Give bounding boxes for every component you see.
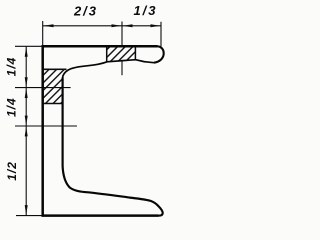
svg-text:2/3: 2/3 [73,4,98,19]
svg-text:1/3: 1/3 [133,3,157,18]
svg-text:1/4: 1/4 [5,57,19,77]
svg-text:1/2: 1/2 [5,161,19,181]
svg-text:1/4: 1/4 [4,97,18,117]
